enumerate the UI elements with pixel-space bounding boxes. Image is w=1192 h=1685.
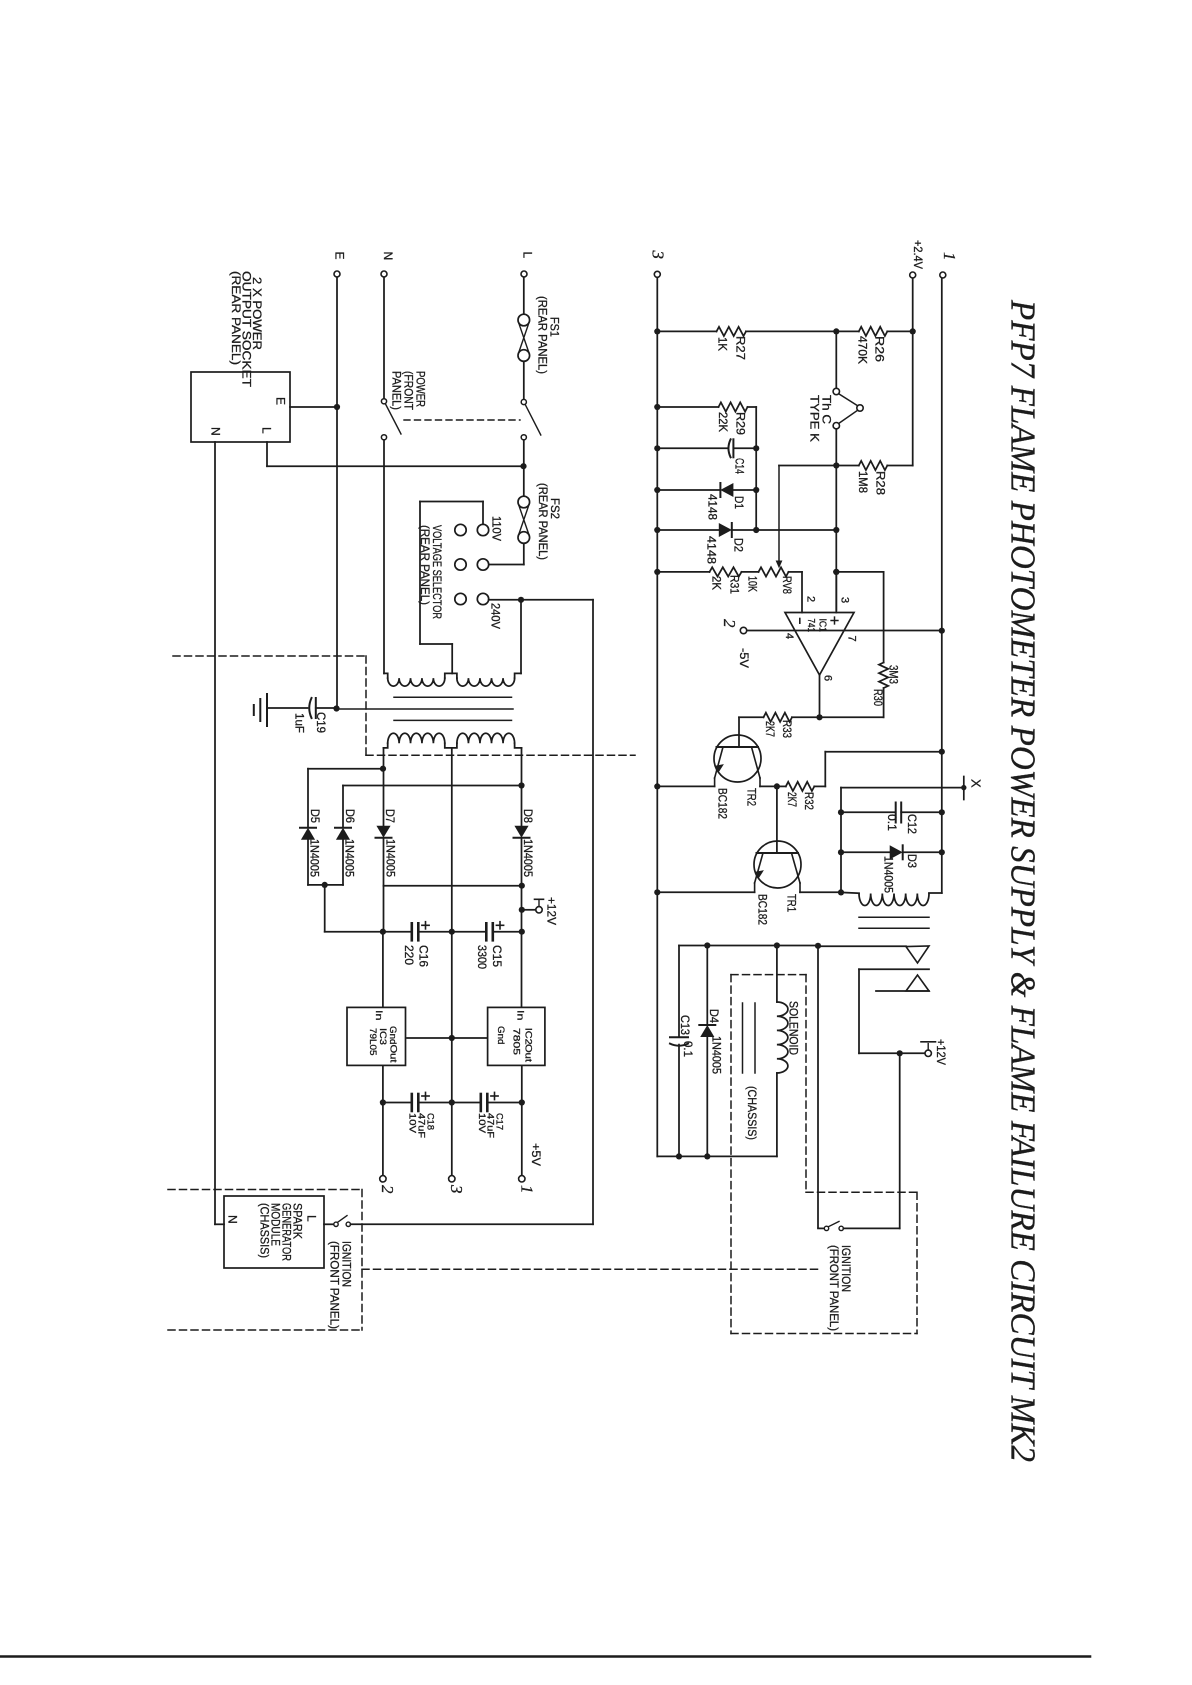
wire to terminal 1 xyxy=(521,1103,523,1176)
wire 240V tap across xyxy=(489,599,593,601)
spark transformer core line xyxy=(859,916,929,918)
spark gap electrode (HT) xyxy=(818,945,906,947)
junction L/socket node xyxy=(520,463,526,469)
svg-text:E: E xyxy=(274,397,288,405)
svg-text:+5V: +5V xyxy=(529,1143,543,1166)
TR2 collector lead xyxy=(752,747,761,778)
junction net A / solenoid xyxy=(774,942,780,948)
regulator IC2 7805 xyxy=(488,1007,545,1065)
terminal +12V (ignition) xyxy=(925,1050,931,1056)
svg-text:2: 2 xyxy=(805,596,817,602)
wire selector to primary centre xyxy=(451,644,453,673)
junction socket-E on E line xyxy=(334,404,340,410)
svg-text:79L05: 79L05 xyxy=(367,1028,378,1056)
svg-text:0.1: 0.1 xyxy=(885,814,899,831)
junction D5 tap xyxy=(380,766,386,772)
junction rail3/R31 xyxy=(654,569,660,575)
dashed front panel box bottom xyxy=(168,1329,362,1331)
transistor TR2 BC182 xyxy=(714,735,761,782)
wire secondary left end down xyxy=(383,748,385,827)
wire IC3 Gnd to 0V xyxy=(407,1037,450,1039)
wire socket E pin xyxy=(290,406,334,408)
wire C15 to +12V rail xyxy=(493,931,522,933)
svg-text:(CHASSIS): (CHASSIS) xyxy=(745,1086,759,1140)
junction 240V node xyxy=(518,597,524,603)
wire L to FS1 xyxy=(523,277,525,314)
terminal 1 (+5V) xyxy=(519,1176,525,1182)
svg-text:1N4005: 1N4005 xyxy=(710,1036,724,1074)
svg-text:2K7: 2K7 xyxy=(785,792,799,807)
resistor R28 1M8 xyxy=(859,461,888,470)
wire to C12 xyxy=(841,811,895,813)
svg-text:D4: D4 xyxy=(707,1009,721,1023)
svg-text:1M8: 1M8 xyxy=(856,471,870,493)
svg-text:L: L xyxy=(305,1215,319,1222)
diode D1 4148 xyxy=(719,483,721,497)
wire to C16 xyxy=(325,931,411,933)
wire D7 to D8 cathode join xyxy=(384,885,522,887)
svg-text:10V: 10V xyxy=(477,1113,487,1133)
junction C12 right on +12V rail xyxy=(939,809,945,815)
svg-text:C19: C19 xyxy=(314,712,328,733)
wire snubber bus xyxy=(840,788,842,893)
wire ignition switch to 240V feed xyxy=(351,1223,594,1225)
wire snubber net A xyxy=(679,945,818,947)
junction C19/screen on E line xyxy=(333,705,339,711)
capacitor C12 0.1 xyxy=(895,803,897,823)
TR2 base bar xyxy=(717,746,759,748)
transformer T1 secondary xyxy=(384,743,388,748)
junction D3 right on +12V rail xyxy=(939,849,945,855)
svg-text:R32: R32 xyxy=(802,792,816,810)
svg-text:D5: D5 xyxy=(308,809,322,823)
wire 0V to C15 xyxy=(452,931,487,933)
svg-text:N: N xyxy=(226,1215,240,1224)
wire to D1 xyxy=(657,489,719,491)
wire R33 to R30 corner xyxy=(792,716,884,718)
wire IC2 Out down xyxy=(521,1066,523,1103)
switch IGNITION (module feed) xyxy=(334,1222,338,1226)
wire socket L pin down xyxy=(266,442,268,466)
switch POWER (FRONT PANEL) L pole xyxy=(521,399,526,404)
wire D7 cathode down xyxy=(383,839,385,932)
junction bus/D2 xyxy=(753,527,759,533)
junction 0V at regulators xyxy=(449,1035,455,1041)
wire 0V rail (net 3) xyxy=(656,278,658,1157)
junction feedback node xyxy=(833,569,839,575)
svg-text:240V: 240V xyxy=(489,603,503,629)
svg-text:N: N xyxy=(209,427,223,436)
wire D2 to thermocouple line xyxy=(733,529,837,531)
resistor R26 470K xyxy=(859,327,888,336)
dashed chassis boundary top xyxy=(173,655,366,657)
svg-text:-5V: -5V xyxy=(737,648,751,668)
svg-text:(REAR PANEL): (REAR PANEL) xyxy=(536,296,550,374)
svg-text:(CHASSIS): (CHASSIS) xyxy=(258,1203,272,1258)
resistor R32 2K7 xyxy=(786,782,815,791)
svg-text:3300: 3300 xyxy=(475,945,489,969)
terminal L xyxy=(521,271,527,277)
svg-text:3: 3 xyxy=(447,1184,466,1194)
terminal 3 top xyxy=(654,271,660,277)
svg-text:D6: D6 xyxy=(343,809,357,823)
dashed panel boundary long xyxy=(362,1268,818,1270)
voltage selector contacts xyxy=(455,524,466,535)
wire to R27 xyxy=(657,330,716,332)
svg-text:TR1: TR1 xyxy=(785,894,799,912)
junction rail3/C14 xyxy=(654,445,660,451)
junction +5V node xyxy=(519,1099,525,1105)
wire to R29 xyxy=(657,406,718,408)
junction -5V node xyxy=(380,1099,386,1105)
junction bus/D1 xyxy=(753,487,759,493)
wire L pole to FS2 xyxy=(523,440,525,496)
wire to +12V terminal xyxy=(859,1052,925,1054)
junction rail3/TR2 emitter xyxy=(654,783,660,789)
terminal +12V (supply) xyxy=(524,909,536,911)
wire primary left to TR1 collector node xyxy=(841,891,859,894)
wire 0V bottom return xyxy=(657,1155,777,1157)
resistor R29 22K xyxy=(719,402,748,411)
wire pin6 output xyxy=(819,675,821,717)
svg-text:R26: R26 xyxy=(873,336,887,362)
junction D4/0V xyxy=(704,1153,710,1159)
svg-text:E: E xyxy=(333,252,347,260)
junction net A / D4 xyxy=(704,942,710,948)
wire ignition feed up xyxy=(899,1053,901,1228)
svg-text:D8: D8 xyxy=(521,809,535,823)
wire N to transformer primary xyxy=(383,440,385,673)
wire TR2 collector to node xyxy=(760,785,777,787)
C16 polarity + xyxy=(422,924,429,926)
wire pin3 xyxy=(835,572,837,613)
wire to R28 xyxy=(836,465,859,467)
svg-text:2K: 2K xyxy=(710,576,724,590)
spark transformer T2 primary xyxy=(929,892,942,894)
diode D3 1N4005 xyxy=(902,845,904,859)
IC1 inverting input minus xyxy=(799,619,801,624)
transformer T1 primary xyxy=(384,673,388,678)
wire FS1 to POWER switch L pole xyxy=(523,361,525,398)
TR2 emitter lead xyxy=(715,747,723,778)
wire IC2 Gnd to 0V xyxy=(454,1037,487,1039)
wire to D5 xyxy=(308,768,383,770)
terminal +2.4V xyxy=(910,272,916,278)
junction thermocouple top node xyxy=(833,328,839,334)
wire C13 upper xyxy=(678,946,680,1037)
capacitor C17 47uF 10V xyxy=(479,1094,482,1111)
transformer core line xyxy=(394,719,512,721)
svg-text:22K: 22K xyxy=(716,412,730,432)
diode D7 1N4005 xyxy=(376,837,392,839)
dashed chassis box right lower xyxy=(916,1192,918,1333)
junction TR1 collector node xyxy=(838,889,844,895)
svg-text:7: 7 xyxy=(846,636,858,642)
transistor TR1 BC182 xyxy=(754,841,801,888)
resistor R27 1K xyxy=(717,327,747,336)
svg-text:4148: 4148 xyxy=(704,536,718,564)
svg-text:In: In xyxy=(373,1010,384,1021)
wire to C14 xyxy=(657,447,728,449)
wire C16 to centre tap xyxy=(418,931,452,933)
svg-text:1uF: 1uF xyxy=(293,713,307,733)
wire FS2 to selector xyxy=(523,543,525,564)
dashed chassis box top xyxy=(731,974,806,976)
svg-text:C16: C16 xyxy=(417,945,431,967)
wire electrode return down xyxy=(858,969,860,1053)
resistor R30 3M3 xyxy=(879,663,888,689)
junction +12V rail at D8 xyxy=(519,883,525,889)
resistor R33 2K7 xyxy=(764,713,793,722)
spark gap electrode (return plate) xyxy=(859,968,929,970)
wire TR2 emitter to 0V xyxy=(657,785,714,787)
svg-text:Out: Out xyxy=(388,1045,399,1063)
svg-text:C15: C15 xyxy=(490,945,504,967)
wire R27 to thermocouple node xyxy=(746,330,836,332)
dashed chassis box bottom xyxy=(731,1333,917,1335)
svg-text:L: L xyxy=(260,427,274,434)
diode D6 1N4005 xyxy=(335,827,351,829)
svg-text:D3: D3 xyxy=(905,854,919,868)
wire IC3 In xyxy=(382,932,384,1007)
junction D2 node xyxy=(833,527,839,533)
junction 0V at output caps xyxy=(449,1099,455,1105)
wire net A down to ignition switch xyxy=(817,946,819,1228)
TR1 emitter lead xyxy=(755,853,763,883)
wire to TR1 base xyxy=(776,786,778,853)
svg-text:1N4005: 1N4005 xyxy=(521,839,535,877)
svg-text:4148: 4148 xyxy=(705,494,719,520)
wire pin4 / pin7 supply line xyxy=(744,630,942,632)
RV8 wiper arrow xyxy=(778,466,780,561)
wire -5V to C18 xyxy=(383,1102,411,1104)
junction pin7 on +12V rail xyxy=(939,628,945,634)
wire to D2 xyxy=(657,529,720,531)
wire module N pin xyxy=(215,1223,224,1225)
svg-text:RV8: RV8 xyxy=(780,576,794,594)
svg-text:R31: R31 xyxy=(728,575,742,594)
wire TR1 emitter to 0V xyxy=(657,891,754,893)
wire module L pin xyxy=(324,1223,334,1225)
svg-text:7805: 7805 xyxy=(510,1028,521,1055)
svg-text:In: In xyxy=(515,1010,526,1021)
svg-text:TR2: TR2 xyxy=(745,788,759,806)
svg-text:Gnd: Gnd xyxy=(495,1026,506,1045)
svg-text:10V: 10V xyxy=(408,1113,418,1133)
transformer T1 secondary right half xyxy=(457,733,515,743)
svg-text:6: 6 xyxy=(822,675,834,681)
junction 0V at C16/C15 xyxy=(449,929,455,935)
capacitor C15 3300 xyxy=(485,923,488,940)
junction net A / ignition xyxy=(815,943,821,949)
svg-text:D1: D1 xyxy=(732,496,746,509)
solenoid core bar xyxy=(742,1003,744,1073)
wire to thermocouple xyxy=(835,335,837,389)
wire to TR2 base xyxy=(738,717,740,747)
svg-text:IC2: IC2 xyxy=(523,1028,534,1045)
wire feedback xyxy=(836,571,883,573)
dashed chassis box right upper xyxy=(805,975,807,1193)
junction D6 tap on right wire xyxy=(518,782,524,788)
svg-text:110V: 110V xyxy=(490,516,504,541)
junction rail3/D2 xyxy=(654,527,660,533)
junction output node xyxy=(816,714,822,720)
wire D6 anode down xyxy=(342,839,344,885)
wire thermocouple to IC1 pin3 xyxy=(835,429,837,610)
junction +12V terminal tap xyxy=(519,907,525,913)
wire D4 upper xyxy=(706,946,708,1025)
wire N to POWER switch xyxy=(383,277,385,398)
solenoid coil xyxy=(776,946,778,1003)
wire TR1 collector xyxy=(800,891,841,893)
wire output to R33 xyxy=(739,716,764,718)
terminal 2 (-5V) xyxy=(380,1176,386,1182)
wire wiper to R28 node xyxy=(779,465,836,467)
svg-text:BC182: BC182 xyxy=(756,894,770,925)
wire +12V rail (net 1) down xyxy=(941,278,943,893)
switch POWER (FRONT PANEL) N pole xyxy=(381,399,386,404)
dashed chassis box left xyxy=(730,975,732,1334)
dashed chassis boundary across transformer xyxy=(366,754,635,756)
svg-text:0.1: 0.1 xyxy=(681,1041,695,1057)
spark generator module box xyxy=(224,1196,324,1268)
wire 240V to primary right end xyxy=(520,600,522,674)
svg-text:(REAR PANEL): (REAR PANEL) xyxy=(536,483,550,560)
svg-text:+2.4V: +2.4V xyxy=(911,240,925,269)
junction C13/0V xyxy=(676,1153,682,1159)
transformer T1 primary left half xyxy=(388,678,445,686)
dashed front panel box top xyxy=(168,1189,362,1191)
transformer T1 primary right half xyxy=(457,678,515,686)
wire to D6 xyxy=(342,786,344,827)
svg-text:D7: D7 xyxy=(383,809,397,823)
fuse FS2 xyxy=(518,496,530,508)
svg-text:3M3: 3M3 xyxy=(887,665,901,684)
junction R32 on +12V rail xyxy=(939,749,945,755)
wire secondary centre tap 0V rail down to terminal 3 xyxy=(451,748,453,1176)
svg-text:Out: Out xyxy=(522,1044,533,1062)
svg-text:1N4005: 1N4005 xyxy=(343,839,357,877)
wire ignition switch to +12V xyxy=(843,1227,899,1229)
svg-text:N: N xyxy=(381,252,395,261)
wire E line down to screen/C19 node xyxy=(336,277,338,708)
IC1 non-inverting input plus xyxy=(831,620,838,622)
switch mechanical link (dashed) xyxy=(404,419,520,421)
junction R28/RV8 node xyxy=(833,462,839,468)
diode D8 1N4005 xyxy=(514,837,530,839)
wire IC3 Out down xyxy=(382,1066,384,1103)
dashed chassis boundary right upper xyxy=(365,656,367,756)
svg-text:1N4005: 1N4005 xyxy=(384,839,398,877)
svg-text:+12V: +12V xyxy=(545,897,559,925)
spark transformer core line xyxy=(859,927,929,929)
svg-text:(REAR PANEL): (REAR PANEL) xyxy=(229,271,243,365)
diode D2 4148 xyxy=(731,523,733,537)
terminal 2 (-5V supply) xyxy=(740,627,746,633)
transformer core line xyxy=(394,696,512,698)
TR1 collector lead xyxy=(792,853,801,883)
capacitor C19 1uF xyxy=(309,698,311,718)
svg-text:(FRONT PANEL): (FRONT PANEL) xyxy=(328,1241,342,1329)
junction D5/D6 negative node xyxy=(322,882,328,888)
wire C19 to E line xyxy=(316,707,334,709)
TR1 base bar xyxy=(757,852,799,854)
svg-text:R27: R27 xyxy=(734,336,748,360)
fuse FS1 xyxy=(518,314,530,326)
svg-text:L: L xyxy=(521,252,535,259)
svg-text:PANEL): PANEL) xyxy=(390,371,404,410)
op-amp IC1 741 xyxy=(785,613,854,676)
wire to terminal 2 xyxy=(382,1103,384,1176)
terminal N xyxy=(381,271,387,277)
wire RV8 to IC1 pin2 xyxy=(801,572,803,613)
transformer T1 secondary left half xyxy=(388,733,445,743)
wire 110V tap loop xyxy=(482,502,484,525)
svg-text:R33: R33 xyxy=(780,720,794,738)
junction IC3 input node xyxy=(380,929,386,935)
svg-text:1N4005: 1N4005 xyxy=(882,856,896,893)
svg-text:+12V: +12V xyxy=(934,1039,948,1065)
thermocouple Th C TYPE K xyxy=(833,388,839,394)
capacitor C18 47uF 10V xyxy=(410,1094,413,1111)
svg-text:SOLENOID: SOLENOID xyxy=(787,1001,801,1055)
svg-text:PFP7 FLAME PHOTOMETER POWER: PFP7 FLAME PHOTOMETER POWER SUPPLY & FLA… xyxy=(1003,299,1042,1462)
wire D5/D6 join xyxy=(308,884,343,886)
wire D8 cathode down to IC2 In xyxy=(521,839,523,1007)
junction TR2 collector/R32/TR1 base xyxy=(774,783,780,789)
capacitor C14 xyxy=(728,439,730,457)
svg-text:R28: R28 xyxy=(874,471,888,495)
wire R32 up xyxy=(824,752,826,787)
junction rail3/TR1 emitter xyxy=(654,889,660,895)
wire to R31 xyxy=(657,571,709,573)
wire to R26 xyxy=(836,330,859,332)
ground (earth) symbol xyxy=(266,694,268,726)
resistor R31 2K xyxy=(710,567,742,576)
svg-text:BC182: BC182 xyxy=(716,788,730,819)
wire C13 lower xyxy=(678,1045,680,1157)
wire negative node down xyxy=(324,885,326,932)
wire D5 anode down xyxy=(307,839,309,885)
wire to D3 xyxy=(841,851,891,853)
junction C12 left xyxy=(838,809,844,815)
diode D5 1N4005 xyxy=(300,827,316,829)
scan edge line xyxy=(0,1655,1090,1658)
wire socket L to FS2 node xyxy=(267,465,521,467)
wire earth to C19 xyxy=(267,707,308,709)
wire D6 tap to secondary right xyxy=(343,785,522,787)
svg-text:4: 4 xyxy=(783,633,795,639)
C15 polarity + xyxy=(496,924,503,926)
dashed chassis box step xyxy=(806,1191,917,1193)
diode D4 1N4005 xyxy=(699,1024,715,1026)
wire secondary right end down xyxy=(521,748,523,827)
svg-text:C14: C14 xyxy=(733,458,747,474)
wire +2.4V rail down to R28 xyxy=(912,278,914,465)
wire R32 to +12V rail xyxy=(825,751,942,753)
wire down right side to module ignition switch xyxy=(592,600,594,1225)
wire socket N down to spark module xyxy=(214,442,216,1224)
svg-text:3: 3 xyxy=(648,250,667,260)
svg-text:470K: 470K xyxy=(856,336,870,364)
terminal X xyxy=(963,777,965,800)
svg-text:1: 1 xyxy=(940,252,959,261)
svg-text:1N4005: 1N4005 xyxy=(308,839,322,877)
svg-text:2: 2 xyxy=(378,1185,397,1194)
svg-text:3: 3 xyxy=(839,597,851,603)
svg-text:2: 2 xyxy=(720,619,739,628)
junction rail3/D1 xyxy=(654,487,660,493)
